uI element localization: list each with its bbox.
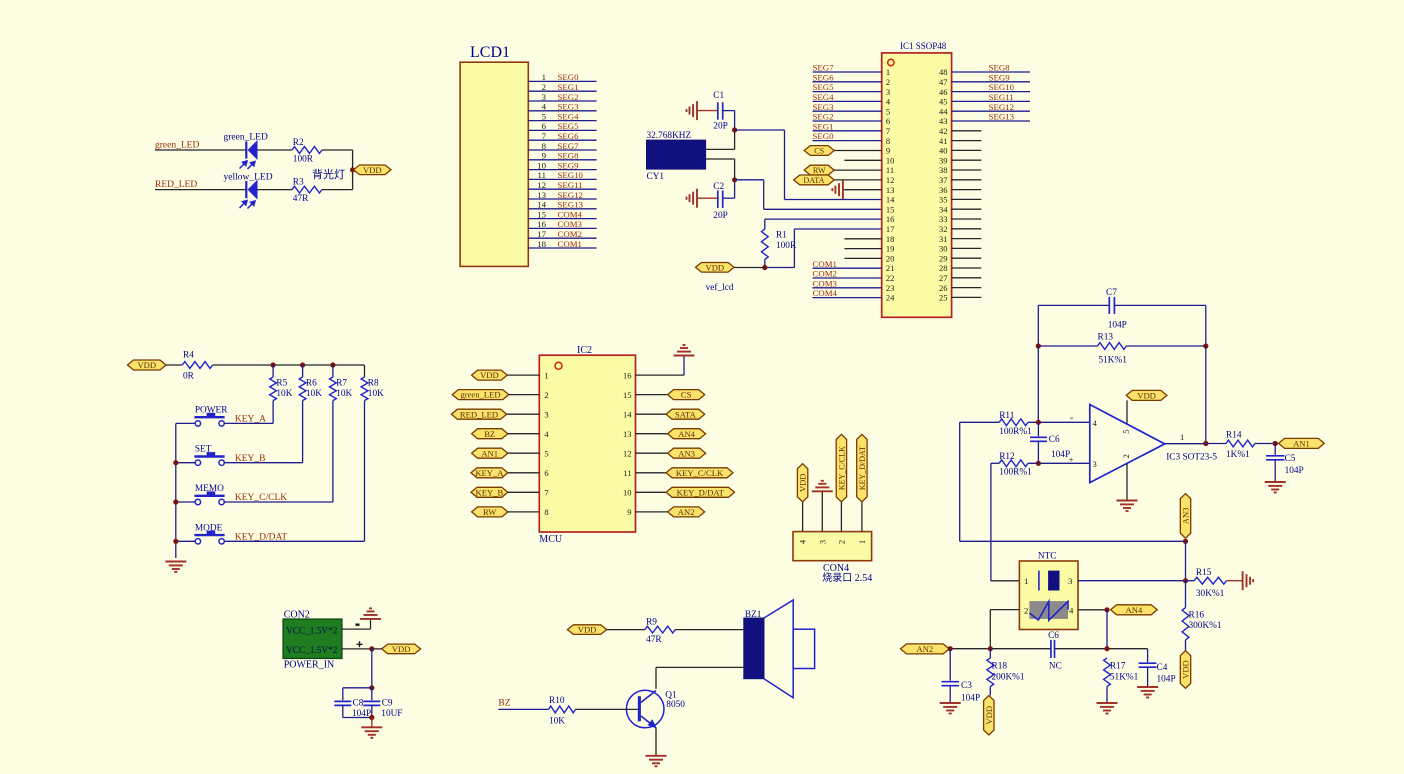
svg-text:SEG8: SEG8: [558, 151, 580, 161]
svg-text:C3: C3: [961, 681, 972, 691]
IC1 pin 30 stub: [952, 247, 982, 249]
wire R16 to VDD port: [1185, 640, 1187, 651]
svg-text:SEG13: SEG13: [558, 200, 584, 210]
wire VDD to R4: [166, 364, 182, 366]
svg-text:R13: R13: [1098, 333, 1114, 343]
svg-text:15: 15: [623, 390, 632, 400]
svg-text:104P: 104P: [961, 694, 980, 704]
svg-text:CS: CS: [681, 390, 692, 400]
LED green_LED: [245, 142, 247, 159]
svg-text:1: 1: [1024, 576, 1028, 586]
wire R18 to VDD port: [989, 649, 991, 658]
svg-text:4: 4: [544, 429, 549, 439]
LCD1 pin 13 SEG12: [528, 198, 596, 200]
svg-text:BZ: BZ: [498, 699, 510, 709]
svg-text:NTC: NTC: [1038, 552, 1057, 562]
wire R10 to Q1 base: [576, 708, 638, 710]
wire net RED_LED: [155, 189, 246, 191]
svg-text:MCU: MCU: [539, 534, 563, 545]
svg-text:SEG4: SEG4: [558, 111, 580, 121]
svg-text:R6: R6: [306, 379, 317, 389]
wire VDD to R9: [607, 629, 645, 631]
capacitor C2 20P: [717, 190, 719, 208]
svg-text:17: 17: [886, 224, 895, 234]
svg-text:COM2: COM2: [813, 269, 837, 279]
svg-text:SEG2: SEG2: [813, 112, 834, 122]
svg-text:10UF: 10UF: [381, 709, 402, 719]
IC1 pin 26 stub: [952, 287, 982, 289]
wire R13 feedback left: [1038, 345, 1097, 347]
wire op-amp pin2 to ground: [1126, 464, 1128, 500]
IC1 pin 39 stub: [952, 159, 982, 161]
svg-text:8: 8: [544, 507, 548, 517]
svg-text:13: 13: [623, 429, 632, 439]
svg-text:KEY_D/DAT: KEY_D/DAT: [235, 533, 287, 543]
resistor R18 200K: [987, 658, 994, 687]
svg-text:33: 33: [939, 214, 948, 224]
LCD1 pin 12 SEG11: [528, 188, 596, 190]
IC1 pin18 stub: [844, 238, 881, 240]
ground C2: [696, 189, 698, 208]
svg-text:green_LED: green_LED: [460, 390, 500, 400]
wire key row KEY_D/DAT: [176, 540, 195, 542]
wire NTC pin2 down: [990, 609, 1019, 611]
svg-text:R2: R2: [293, 138, 304, 148]
svg-text:VDD: VDD: [705, 262, 724, 272]
svg-text:RED_LED: RED_LED: [155, 180, 197, 190]
svg-text:2: 2: [544, 390, 548, 400]
wire R7 to key row: [332, 401, 334, 502]
junction R18 top: [988, 646, 993, 651]
wire IC1 pin17 to vref node: [794, 228, 881, 230]
capacitor C1 20P: [717, 102, 719, 119]
svg-text:MEMO: MEMO: [195, 484, 224, 494]
port CS on IC2 pin15: [636, 394, 668, 396]
IC1 pin 24 wire COM4: [813, 297, 882, 299]
svg-text:3: 3: [542, 92, 547, 102]
transistor Q1 8050: [626, 690, 664, 728]
wire R6 to key row: [302, 401, 304, 463]
IC1 pin 48 wire SEG8: [952, 71, 1030, 73]
svg-text:SEG5: SEG5: [558, 121, 580, 131]
svg-text:10K: 10K: [336, 389, 352, 399]
svg-text:C6: C6: [1049, 435, 1060, 445]
svg-text:KEY_A: KEY_A: [235, 415, 266, 425]
svg-text:CY1: CY1: [647, 172, 665, 182]
svg-text:SEG0: SEG0: [813, 131, 835, 141]
IC1 pin 29 stub: [952, 257, 982, 259]
svg-text:41: 41: [939, 136, 948, 146]
svg-text:VDD: VDD: [984, 706, 994, 725]
svg-text:C4: C4: [1157, 663, 1168, 673]
IC1 pin 1 wire SEG7: [813, 71, 882, 73]
ground CON4 pin3: [812, 490, 833, 492]
svg-text:R8: R8: [368, 379, 379, 389]
svg-text:9: 9: [627, 507, 631, 517]
wire R13 feedback right: [1126, 345, 1206, 347]
resistor R2: [292, 147, 322, 154]
svg-text:IC1 SSOP48: IC1 SSOP48: [900, 41, 947, 51]
svg-text:R18: R18: [992, 662, 1008, 672]
svg-text:20P: 20P: [713, 122, 727, 132]
wire LED to R2: [258, 149, 293, 151]
svg-text:25: 25: [939, 293, 948, 303]
svg-text:R15: R15: [1196, 568, 1212, 578]
vertical port VDD R18: [984, 696, 994, 736]
junction AN4: [1104, 607, 1109, 612]
svg-text:4: 4: [886, 97, 891, 107]
wire VDD to op-amp pin5: [1126, 400, 1128, 423]
IC1 pin 4 wire SEG4: [813, 100, 882, 102]
junction feedback left: [1036, 343, 1041, 348]
svg-text:9: 9: [886, 146, 890, 156]
svg-text:39: 39: [939, 155, 948, 165]
port KEY_B on IC2 pin7: [471, 487, 508, 497]
port KEY_D/DAT on IC2 pin10: [636, 491, 667, 493]
svg-text:12: 12: [886, 175, 895, 185]
svg-text:4: 4: [798, 539, 808, 544]
IC1 pin1 marker: [888, 59, 894, 65]
svg-text:5: 5: [542, 111, 547, 121]
svg-text:23: 23: [886, 283, 895, 293]
junction R17 top: [1104, 646, 1109, 651]
svg-text:SEG7: SEG7: [813, 63, 835, 73]
svg-text:3: 3: [1068, 576, 1073, 586]
svg-text:SEG12: SEG12: [558, 190, 583, 200]
resistor R13 51K: [1098, 343, 1127, 350]
LCD1 pin 2 SEG1: [528, 90, 596, 92]
svg-text:POWER: POWER: [195, 405, 228, 415]
svg-text:C8: C8: [353, 698, 364, 708]
svg-text:SEG10: SEG10: [558, 170, 584, 180]
buzzer BZ1: [744, 618, 764, 679]
svg-text:3: 3: [817, 540, 827, 544]
IC1 pin 2 wire SEG6: [813, 81, 882, 83]
svg-text:NC: NC: [1049, 662, 1062, 672]
junction AN2 C3: [948, 646, 953, 651]
svg-text:10K: 10K: [368, 389, 384, 399]
svg-text:5: 5: [1121, 429, 1131, 434]
resistor R4 0R: [182, 362, 212, 369]
svg-text:9: 9: [542, 151, 547, 161]
svg-text:10: 10: [886, 155, 895, 165]
port AN2 on IC2 pin9: [636, 511, 668, 513]
ground C3: [940, 702, 961, 704]
IC1 pin 31 stub: [952, 238, 982, 240]
wire NTC pin4 to AN4: [1078, 609, 1107, 611]
LCD1 pin 4 SEG3: [528, 110, 596, 112]
svg-text:30K%1: 30K%1: [1196, 589, 1225, 599]
wire R2 to VDD node: [322, 149, 353, 151]
svg-text:COM3: COM3: [558, 219, 583, 229]
wire node B to IC1 pin15: [735, 179, 764, 181]
wire C2 to node B: [723, 197, 735, 199]
svg-text:2: 2: [1024, 606, 1028, 616]
svg-text:3: 3: [544, 409, 548, 419]
svg-text:yellow_LED: yellow_LED: [224, 173, 273, 183]
svg-text:vef_lcd: vef_lcd: [706, 282, 734, 293]
junction key row2: [173, 460, 178, 465]
junction AN1 node: [1273, 441, 1278, 446]
wire R9 to BZ1: [675, 629, 744, 631]
svg-text:1: 1: [544, 370, 548, 380]
junction feedback right: [1203, 343, 1208, 348]
svg-text:11: 11: [623, 468, 631, 478]
ground C1: [696, 101, 698, 120]
svg-text:AN2: AN2: [678, 507, 695, 517]
svg-text:48: 48: [939, 67, 948, 77]
svg-text:BZ1: BZ1: [745, 610, 762, 620]
svg-text:AN1: AN1: [1293, 438, 1310, 448]
power port VDD main: [382, 644, 421, 654]
svg-text:104P: 104P: [1051, 450, 1070, 460]
svg-text:SEG5: SEG5: [813, 82, 835, 92]
svg-text:SEG4: SEG4: [813, 92, 835, 102]
resistor R15 30K: [1186, 580, 1195, 582]
wire R8 to key row: [364, 401, 366, 542]
svg-text:47: 47: [939, 77, 948, 87]
svg-text:6: 6: [544, 468, 548, 478]
IC1 pin 46 wire SEG10: [952, 91, 1030, 93]
IC1 pin 22 wire COM2: [813, 277, 882, 279]
port KEY_A on IC2 pin6: [471, 468, 508, 478]
svg-text:20P: 20P: [713, 211, 727, 221]
port green_LED on IC2 pin2: [452, 390, 508, 400]
wire AN3 to R15 node: [1185, 541, 1187, 580]
op-amp IC3 SOT23-5: [1090, 405, 1165, 483]
wire op-amp output: [1165, 443, 1206, 445]
IC1 pin 21 wire COM1: [813, 267, 882, 269]
wire CON4 pin2: [840, 502, 842, 532]
resistor R12 100R: [999, 460, 1028, 467]
IC1 pin 41 stub: [952, 140, 982, 142]
svg-text:SEG10: SEG10: [989, 82, 1015, 92]
junction vref node: [762, 265, 767, 270]
power port VDD op-amp: [1126, 390, 1167, 400]
junction caps top: [369, 685, 374, 690]
junction caps bottom: [369, 715, 374, 720]
wire CY1 pin2 to node B: [706, 158, 735, 160]
svg-text:R16: R16: [1189, 611, 1205, 621]
svg-text:IC2: IC2: [577, 345, 592, 356]
svg-text:10K: 10K: [306, 389, 322, 399]
IC1 pin 33 stub: [952, 218, 982, 220]
junction key row3: [173, 499, 178, 504]
pushbutton MODE: [194, 534, 224, 536]
svg-text:10K: 10K: [549, 717, 565, 727]
vertical port AN3: [1180, 494, 1190, 539]
svg-text:VDD: VDD: [1137, 390, 1156, 400]
pushbutton MEMO: [194, 495, 224, 497]
NTC thermistor element: [1029, 601, 1068, 619]
svg-text:4: 4: [1069, 606, 1074, 616]
svg-text:47R: 47R: [293, 194, 309, 204]
svg-text:8: 8: [542, 141, 547, 151]
ground power caps: [371, 718, 373, 727]
vertical port KEY_D/DAT on CON4 pin1: [857, 434, 867, 502]
IC1 pin 23 wire COM3: [813, 287, 882, 289]
svg-text:R14: R14: [1226, 431, 1242, 441]
IC1 pin numbers: [886, 67, 948, 302]
svg-text:2: 2: [886, 77, 890, 87]
IC1 pin 7 wire SEG1: [813, 130, 882, 132]
wire C7 loop left: [1037, 305, 1039, 346]
ground keys: [165, 561, 186, 563]
svg-text:5: 5: [886, 106, 890, 116]
IC U1 IC1 SSOP48 body: [882, 53, 952, 317]
ground C4: [1137, 686, 1158, 688]
svg-text:24: 24: [886, 293, 895, 303]
capacitor C7 104P: [1108, 297, 1110, 314]
wire CON2 plus pin: [342, 648, 372, 650]
svg-text:SEG11: SEG11: [558, 180, 583, 190]
wire feedback to output node: [1205, 346, 1207, 444]
IC1 pin10 stub: [844, 159, 881, 161]
IC1 pin19 stub: [844, 248, 881, 250]
svg-text:C1: C1: [713, 91, 724, 101]
svg-text:43: 43: [939, 116, 948, 126]
IC1 pin 38 stub: [952, 169, 982, 171]
svg-text:R11: R11: [999, 411, 1015, 421]
svg-text:SEG6: SEG6: [558, 131, 580, 141]
junction R7 top: [330, 362, 335, 367]
junction inverting input: [1036, 420, 1041, 425]
IC1 pin 43 wire SEG13: [952, 120, 1030, 122]
LCD1 pin 1 SEG0: [528, 80, 596, 82]
resistor R17 51K: [1104, 658, 1111, 687]
svg-text:300K%1: 300K%1: [1189, 621, 1222, 631]
svg-text:8: 8: [886, 136, 890, 146]
svg-text:COM1: COM1: [813, 259, 837, 269]
wire VDD to caps: [371, 649, 373, 688]
wire node A to IC1 pin14: [735, 129, 785, 131]
capacitor C3 104P: [949, 649, 951, 681]
wire feedback to inverting input: [1037, 346, 1039, 422]
svg-text:46: 46: [939, 87, 948, 97]
svg-text:12: 12: [623, 448, 632, 458]
wire CON4 pin1: [861, 502, 863, 532]
svg-text:SET: SET: [195, 445, 212, 455]
svg-text:27: 27: [939, 273, 948, 283]
svg-text:2: 2: [1121, 454, 1131, 458]
pushbutton SET: [194, 455, 224, 457]
svg-text:COM4: COM4: [813, 288, 838, 298]
wire AN2 net: [949, 648, 1051, 650]
svg-text:40: 40: [939, 146, 948, 156]
svg-text:100R: 100R: [293, 155, 314, 165]
wire C1 to node A: [723, 110, 735, 112]
svg-text:VCC_1.5V*2: VCC_1.5V*2: [286, 646, 338, 656]
svg-text:RW: RW: [813, 166, 826, 175]
svg-text:R12: R12: [999, 452, 1015, 462]
svg-text:14: 14: [537, 200, 546, 210]
svg-text:6: 6: [542, 121, 547, 131]
resistor R14 1K: [1226, 440, 1255, 447]
IC1 pin 32 stub: [952, 228, 982, 230]
wire CON2 minus pin: [342, 628, 371, 630]
svg-text:32.768KHZ: 32.768KHZ: [647, 131, 692, 141]
svg-text:36: 36: [939, 185, 948, 195]
connector CON2 POWER_IN body: [283, 619, 342, 658]
IC2 pin numbers: [544, 370, 632, 517]
svg-text:IC3 SOT23-5: IC3 SOT23-5: [1166, 453, 1217, 463]
svg-text:3: 3: [1093, 459, 1097, 469]
vertical port VDD R16: [1180, 651, 1190, 689]
svg-text:C7: C7: [1106, 288, 1117, 298]
LCD1 pin 9 SEG8: [528, 159, 596, 161]
wire R4 rail: [213, 364, 365, 366]
svg-text:R4: R4: [183, 351, 194, 361]
svg-text:2: 2: [542, 82, 546, 92]
svg-text:KEY_B: KEY_B: [235, 454, 266, 464]
svg-text:VDD: VDD: [392, 644, 411, 654]
svg-text:18: 18: [537, 239, 546, 249]
svg-text:15: 15: [537, 209, 546, 219]
port RW on IC1 pin11: [804, 165, 834, 175]
port AN1 on IC2 pin5: [472, 448, 508, 458]
svg-text:19: 19: [886, 244, 895, 254]
svg-text:SEG0: SEG0: [558, 72, 580, 82]
port AN3 on IC2 pin12: [636, 452, 668, 454]
svg-text:4: 4: [542, 102, 547, 112]
vertical port KEY_C/CLK on CON4 pin2: [836, 434, 846, 502]
svg-text:200K%1: 200K%1: [992, 673, 1025, 683]
svg-text:R10: R10: [549, 696, 565, 706]
svg-text:1: 1: [542, 72, 546, 82]
wire R17 to ground: [1106, 687, 1108, 702]
svg-text:R17: R17: [1110, 662, 1126, 672]
svg-text:5: 5: [544, 448, 548, 458]
LCD1 pin 15 COM4: [528, 218, 596, 220]
ground Q1: [646, 755, 667, 757]
svg-text:VDD: VDD: [798, 473, 808, 492]
port SATA on IC2 pin14: [636, 413, 667, 415]
junction VDD power: [369, 646, 374, 651]
port RED_LED on IC2 pin3: [451, 409, 506, 419]
svg-text:14: 14: [623, 409, 632, 419]
port DATA on IC1 pin12: [794, 175, 835, 185]
svg-text:100R%1: 100R%1: [999, 468, 1032, 478]
junction backlight VDD: [350, 167, 355, 172]
capacitor C6 104P op-amp: [1037, 422, 1039, 436]
svg-text:AN4: AN4: [678, 429, 695, 439]
svg-text:7: 7: [542, 131, 547, 141]
wire IC1 pin16 to R1: [765, 218, 882, 220]
svg-text:KEY_C/CLK: KEY_C/CLK: [235, 493, 287, 503]
svg-text:COM1: COM1: [558, 239, 582, 249]
port AN2: [901, 644, 950, 654]
LCD1 pin 11 SEG10: [528, 178, 596, 180]
ground R15: [1227, 580, 1243, 582]
wire R11 input from AN3 net: [959, 422, 961, 541]
svg-text:AN4: AN4: [1126, 605, 1143, 615]
wire key row KEY_B: [176, 462, 195, 464]
wire R12 to NTC pin1: [990, 463, 992, 581]
resistor R7 10K: [332, 365, 334, 377]
resistor R9 47R: [645, 626, 675, 633]
wire CON4 pin4: [802, 502, 804, 532]
LCD1 pin 6 SEG5: [528, 129, 596, 131]
IC1 pin 6 wire SEG2: [813, 120, 882, 122]
svg-text:2: 2: [836, 540, 846, 544]
svg-text:CS: CS: [814, 146, 824, 155]
wire output to R14: [1206, 443, 1226, 445]
svg-text:18: 18: [886, 234, 895, 244]
svg-text:1: 1: [1180, 432, 1184, 442]
svg-text:16: 16: [886, 214, 895, 224]
svg-text:SEG7: SEG7: [558, 141, 580, 151]
LCD1 pin 5 SEG4: [528, 120, 596, 122]
